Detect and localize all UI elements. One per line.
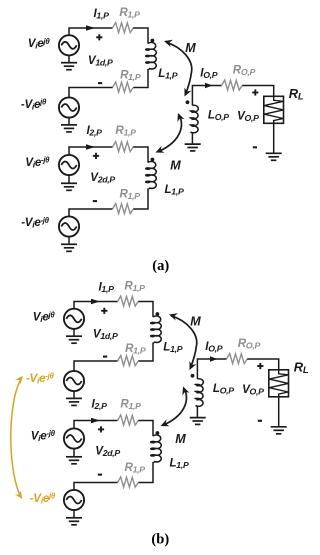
inductor LO,P (a): [191, 105, 199, 133]
resistor R1,P second (a): [113, 82, 134, 92]
wire V3 to ground (b): [73, 449, 75, 457]
wire V4 to ground (b): [73, 510, 75, 518]
wire R2 to V2 (b): [74, 361, 118, 371]
wire R1 to L1 (a): [133, 28, 148, 44]
wire V2 to ground (b): [73, 391, 75, 398]
ground under V4 (a): [61, 244, 77, 251]
current arrow IO,P (a): [205, 83, 213, 89]
voltage source V2 (b): [64, 371, 84, 391]
minus sign V2d (b): [98, 474, 102, 476]
mutual arrow M2 head bottom (a): [156, 146, 165, 153]
inductor L1,P first (a): [146, 42, 157, 69]
wire LO bottom to ground (b): [196, 406, 198, 418]
ground under RL (a): [266, 153, 282, 160]
ground under V3 (a): [61, 183, 77, 190]
minus sign V2d (a): [93, 200, 97, 202]
inductor L1,P second (b): [151, 435, 162, 462]
voltage source V1 (a): [59, 35, 79, 55]
resistor R1,P fourth (b): [118, 477, 139, 487]
minus sign V1d (a): [98, 82, 102, 84]
voltage source V4 (a): [59, 216, 79, 236]
mutual arrow M2 head top (b): [182, 387, 189, 396]
wire V3 top (a): [69, 147, 113, 155]
svg-text:M: M: [175, 432, 186, 446]
ground under LO,P (b): [190, 418, 206, 425]
mutual arrow M2 curve (b): [163, 388, 186, 425]
polarity dot L1 first (a): [151, 39, 155, 43]
voltage source V1 (b): [64, 309, 84, 329]
svg-text:M: M: [170, 159, 181, 173]
ground under V3 (b): [66, 457, 82, 464]
polarity dot LO,P (b): [191, 374, 195, 378]
wire LO top to ROP (b): [197, 359, 226, 379]
ground under V2 (b): [66, 398, 82, 405]
polarity dot L1 second (a): [151, 158, 155, 162]
minus sign VO (a): [253, 146, 257, 148]
minus sign VO (b): [258, 420, 262, 422]
wire L1 second bottom to R4 (a): [133, 189, 148, 210]
svg-text:(a): (a): [152, 258, 169, 274]
plus sign V1d (a): [96, 34, 102, 40]
resistor R1,P third (a): [113, 142, 134, 152]
wire V3 top (b): [74, 421, 118, 429]
polarity dot L1 second (b): [156, 431, 160, 435]
wire V1 top (b): [74, 302, 118, 337]
ground under V2 (a): [61, 125, 77, 132]
voltage source V2 (a): [59, 97, 79, 117]
inductor LO,P (b): [196, 379, 204, 407]
current arrow I1,P (b): [91, 299, 100, 305]
resistor R1,P second (b): [118, 356, 139, 366]
resistor R1,P top (a): [113, 23, 134, 33]
wire ROP to RL (b): [247, 359, 279, 370]
wire LO bottom to ground (a): [191, 132, 193, 144]
mutual arrow M2 head top (a): [177, 113, 184, 122]
mutual arrow M1 head bottom (b): [190, 361, 197, 370]
ground under V1 (a): [61, 63, 77, 70]
wire RL to ground (a): [273, 123, 275, 153]
voltage source V3 (b): [64, 428, 84, 448]
inductor L1,P second (a): [146, 161, 157, 188]
plus sign V1d (b): [101, 308, 107, 314]
mutual arrow M1 curve (a): [166, 42, 192, 94]
wire L1 bottom to R2 (a): [133, 69, 148, 88]
mutual arrow M1 head top (b): [169, 313, 178, 320]
ground under V1 (b): [66, 336, 82, 343]
resistor RO,P (b): [227, 354, 248, 364]
wire V2 to ground (a): [68, 118, 70, 125]
wire V4 to ground (a): [68, 237, 70, 245]
current arrow I1,P (a): [86, 25, 95, 31]
wire R3 to L1 second (a): [133, 147, 148, 163]
voltage source V3 (a): [59, 155, 79, 175]
minus sign V1d (b): [103, 356, 107, 358]
wire L1 second bottom to R4 (b): [138, 462, 153, 483]
svg-text:M: M: [185, 41, 196, 55]
current arrow I2,P (b): [91, 418, 100, 424]
load resistor RL box (a): [264, 96, 284, 123]
resistor R1,P top (b): [118, 296, 139, 306]
plus sign V2d (a): [93, 153, 99, 159]
mutual arrow M2 head bottom (b): [161, 419, 170, 426]
current arrow IO,P (b): [210, 356, 218, 362]
mutual arrow M1 head top (a): [164, 40, 173, 47]
wire RL to ground (b): [278, 397, 280, 427]
load resistor RL zigzag (a): [264, 96, 283, 123]
wire LO top to ROP (a): [192, 86, 221, 106]
plus sign VO (b): [257, 363, 263, 369]
wire V3 to ground (a): [68, 175, 70, 183]
wire R1 to L1 (b): [138, 302, 153, 318]
resistor R1,P fourth (a): [113, 204, 134, 214]
wire V1 top (a): [69, 28, 113, 63]
mutual arrow M2 curve (a): [158, 115, 181, 152]
wire R3 to L1 second (b): [138, 421, 153, 437]
wire R4 to V4 (a): [69, 209, 113, 217]
wire R4 to V4 (b): [74, 483, 118, 491]
ground under V4 (b): [66, 518, 82, 525]
wire L1 bottom to R2 (b): [138, 343, 153, 362]
wire R2 to V2 (a): [69, 88, 113, 98]
resistor RO,P (a): [222, 80, 243, 90]
mutual arrow M1 head bottom (a): [185, 88, 192, 97]
inductor L1,P first (b): [151, 316, 162, 343]
polarity dot LO,P (a): [186, 100, 190, 104]
current arrow I2,P (a): [86, 144, 95, 150]
load resistor RL box (b): [269, 370, 289, 397]
svg-text:(b): (b): [151, 532, 169, 548]
phase swap arrow (orange): [11, 378, 22, 498]
plus sign VO (a): [252, 89, 258, 95]
wire ROP to RL (a): [242, 86, 274, 97]
plus sign V2d (b): [98, 426, 104, 432]
polarity dot L1 first (b): [156, 312, 160, 316]
load resistor RL zigzag (b): [269, 370, 288, 397]
ground under LO,P (a): [185, 144, 201, 151]
mutual arrow M1 curve (b): [171, 316, 197, 368]
svg-text:M: M: [190, 314, 201, 328]
resistor R1,P third (b): [118, 415, 139, 425]
ground under RL (b): [271, 427, 287, 434]
voltage source V4 (b): [64, 490, 84, 510]
